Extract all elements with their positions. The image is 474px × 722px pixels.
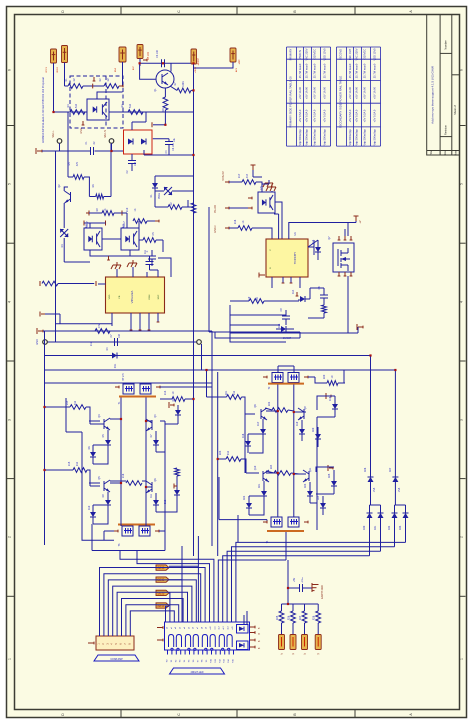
svg-text:Q11: Q11 bbox=[309, 467, 312, 472]
svg-text:GND: GND bbox=[36, 339, 39, 345]
svg-text:1N5: 1N5 bbox=[398, 487, 401, 492]
junction bbox=[192, 89, 194, 91]
svg-text:+5V 1A 00: +5V 1A 00 bbox=[305, 86, 309, 99]
junction bbox=[293, 411, 295, 413]
resistor R20 bbox=[327, 381, 338, 386]
junction bbox=[120, 418, 122, 420]
diode D5 bbox=[105, 440, 111, 445]
diode ladder DB bbox=[392, 476, 398, 478]
pin top mid bbox=[93, 77, 95, 81]
capacitor C7 bbox=[114, 338, 116, 346]
wire C8 link bbox=[310, 287, 324, 289]
svg-text:EARTH GND: EARTH GND bbox=[321, 585, 324, 599]
zone tick right bbox=[460, 242, 466, 244]
wire pullup v0 bbox=[281, 604, 283, 611]
transistor Q10 bbox=[262, 471, 264, 481]
svg-text:1M: 1M bbox=[107, 78, 110, 81]
wire x209 top bbox=[188, 206, 194, 208]
transistor Q8 bbox=[260, 409, 262, 419]
bus line L2 bbox=[47, 341, 197, 343]
junction bbox=[164, 124, 166, 126]
resistor R27 bbox=[191, 203, 196, 213]
wire bundle arrow feed 4 bbox=[166, 606, 170, 622]
wire pullup v2 bbox=[304, 604, 306, 611]
wire P1 down bbox=[53, 63, 55, 112]
svg-text:D22: D22 bbox=[243, 495, 246, 500]
svg-text:GND-F: GND-F bbox=[214, 225, 217, 233]
wire R28 bbox=[58, 283, 94, 285]
wire T3 pins up bbox=[120, 515, 122, 526]
zone tick left bbox=[7, 242, 15, 244]
svg-text:R16: R16 bbox=[122, 473, 125, 478]
display DS1 body bbox=[165, 622, 250, 650]
junction bbox=[293, 473, 295, 475]
wire cap to rail bbox=[287, 588, 289, 604]
wire R5 path bbox=[89, 196, 95, 198]
pin opto in a bbox=[88, 211, 90, 216]
wire D25 box bbox=[316, 467, 334, 472]
transistor Q4 bbox=[151, 420, 153, 430]
wire HB2 right rail bbox=[316, 417, 318, 530]
xdiode D3 bbox=[60, 229, 68, 237]
svg-text:D20: D20 bbox=[312, 427, 315, 432]
wire Q7 top link bbox=[344, 229, 346, 236]
resistor R8 bbox=[163, 97, 168, 110]
wire R17 wires bbox=[229, 181, 242, 183]
junction bbox=[110, 150, 112, 152]
wire D6 link bbox=[93, 444, 108, 446]
wire opto bottoms bbox=[90, 250, 152, 256]
zone tick bottom bbox=[354, 710, 356, 718]
wire D13 top bbox=[308, 240, 318, 247]
svg-text:PWR IN: PWR IN bbox=[298, 50, 302, 59]
svg-text:+310V: +310V bbox=[197, 58, 200, 66]
bus line L4 bbox=[45, 369, 396, 371]
svg-text:25.7W max0: 25.7W max0 bbox=[348, 63, 352, 78]
gnd sym a bbox=[116, 262, 118, 265]
svg-text:R22: R22 bbox=[268, 401, 271, 406]
diode ladder DE bbox=[392, 512, 398, 514]
title block cell line c bbox=[440, 136, 452, 138]
wire Q1 collector up bbox=[170, 63, 172, 71]
wire display bottom pins bbox=[167, 650, 169, 655]
junction bbox=[145, 420, 147, 422]
svg-text:+5V 0.5A 0: +5V 0.5A 0 bbox=[348, 109, 352, 122]
svg-text:Title: Title bbox=[429, 150, 433, 155]
wire D8 box bbox=[165, 421, 178, 424]
pin T3 left bbox=[114, 530, 118, 532]
svg-text:D19: D19 bbox=[296, 421, 299, 426]
pin GNDF bbox=[225, 227, 229, 229]
wire T4 stub bbox=[285, 532, 287, 560]
resistor R24 bbox=[274, 471, 291, 476]
junction bbox=[43, 406, 45, 408]
svg-text:D31: D31 bbox=[374, 525, 377, 530]
power port P1 bbox=[51, 49, 57, 63]
diode D8 bbox=[175, 410, 181, 415]
power port P3 bbox=[119, 47, 126, 62]
pin +out bbox=[358, 326, 363, 328]
wire pullup rail bbox=[282, 603, 319, 605]
BR1 diode b bbox=[141, 139, 146, 145]
wire main row y112 left bbox=[54, 111, 88, 113]
diode ladder DA bbox=[368, 476, 374, 478]
junction bbox=[162, 62, 164, 64]
svg-text:D15: D15 bbox=[278, 323, 281, 328]
pin U4 bl bbox=[41, 313, 45, 315]
svg-text:+5V 1A 00: +5V 1A 00 bbox=[373, 86, 377, 99]
display digit 1 bbox=[169, 635, 174, 648]
junction bbox=[369, 354, 371, 356]
wire HB1 inner box bbox=[93, 452, 108, 464]
wire D10 link bbox=[93, 504, 108, 506]
wire BR1 top pins bbox=[131, 122, 133, 130]
zone tick left bbox=[7, 478, 15, 480]
optocoupler U2 bbox=[84, 228, 102, 250]
connector port K0 bbox=[279, 635, 285, 650]
diode D4 bbox=[112, 353, 117, 359]
wire pull down 3 bbox=[317, 623, 319, 635]
capacitor C5 bbox=[148, 255, 156, 257]
svg-text:D23: D23 bbox=[304, 483, 307, 488]
wire D1 top bbox=[155, 175, 194, 177]
svg-text:DRN: DRN bbox=[149, 294, 151, 299]
svg-text:D16: D16 bbox=[329, 396, 332, 401]
wire C6 right bbox=[158, 258, 171, 277]
optocoupler U3 bbox=[121, 228, 139, 250]
diode D18 bbox=[245, 441, 251, 446]
wire C2 stub bbox=[131, 164, 133, 172]
svg-text:SECOND: SECOND bbox=[339, 49, 343, 60]
wire R18 wires bbox=[229, 227, 238, 229]
wire D12 down bbox=[165, 505, 177, 512]
wire D16 box bbox=[317, 396, 335, 410]
junction bbox=[277, 472, 279, 474]
pin VFB bbox=[225, 181, 229, 183]
wire T3 right out bbox=[159, 530, 165, 532]
designator DS1 bbox=[170, 668, 225, 674]
resistor R9 bbox=[102, 211, 114, 216]
capacitor C8 bbox=[320, 294, 328, 296]
diode D16 bbox=[332, 404, 338, 409]
svg-text:D14: D14 bbox=[292, 289, 295, 294]
svg-text:2K2: 2K2 bbox=[76, 461, 79, 466]
svg-text:25.7W max0: 25.7W max0 bbox=[355, 63, 359, 78]
wire R21 wires bbox=[206, 370, 208, 397]
transistor Q5 bbox=[103, 481, 105, 491]
diode D12 bbox=[174, 490, 180, 495]
svg-text:REF OUT: REF OUT bbox=[348, 48, 352, 60]
title block cell line d bbox=[427, 150, 460, 152]
pin D12 bbox=[174, 485, 177, 487]
net arrow N2 bbox=[156, 590, 169, 595]
svg-text:R19: R19 bbox=[248, 296, 251, 301]
zone tick right bbox=[460, 125, 466, 127]
title block cell line a bbox=[440, 52, 452, 54]
wire branch x68 bbox=[67, 112, 69, 177]
svg-text:VAC-N: VAC-N bbox=[104, 130, 107, 138]
svg-text:PRIMARY: PRIMARY bbox=[289, 48, 293, 60]
net arrow N3 bbox=[156, 603, 169, 608]
terminal VAC-N bbox=[109, 139, 114, 144]
wire U4 pin3 bbox=[146, 272, 148, 277]
svg-text:R14: R14 bbox=[66, 400, 69, 405]
svg-text:Vrip 500mVpp: Vrip 500mVpp bbox=[313, 129, 317, 146]
diode ladder DC bbox=[367, 512, 373, 514]
diode D10 bbox=[90, 512, 96, 517]
svg-text:25.7W max0: 25.7W max0 bbox=[313, 63, 317, 78]
transformer T4 box a bbox=[271, 517, 282, 527]
svg-text:R11: R11 bbox=[144, 249, 147, 254]
svg-text:+5V 0.5A 0: +5V 0.5A 0 bbox=[298, 109, 302, 122]
svg-text:25.7W max0: 25.7W max0 bbox=[373, 63, 377, 78]
svg-text:510: 510 bbox=[75, 103, 78, 108]
wire Q1 to R7 bbox=[170, 86, 177, 90]
wire row B bbox=[84, 222, 106, 224]
resistor R17 bbox=[242, 180, 256, 185]
chassis ground bbox=[311, 583, 313, 592]
zone tick top bbox=[236, 7, 238, 15]
wire Q5 top link bbox=[110, 482, 121, 484]
transformer T3 box b bbox=[139, 526, 150, 536]
resistor R10 bbox=[133, 219, 147, 224]
pin U6 left bbox=[259, 274, 265, 276]
wire R15 wires bbox=[45, 469, 74, 471]
pin opto gnd bbox=[108, 256, 110, 260]
wire y166 bbox=[56, 165, 58, 167]
resistor R5 bbox=[96, 194, 104, 199]
wire R26 link bbox=[154, 196, 156, 207]
svg-text:D26: D26 bbox=[364, 467, 367, 472]
wire pull down 2 bbox=[304, 623, 306, 635]
svg-text:+V: +V bbox=[359, 220, 362, 223]
resistor R7 bbox=[177, 88, 191, 93]
svg-text:C3 104: C3 104 bbox=[156, 49, 159, 57]
svg-text:4K7: 4K7 bbox=[246, 173, 249, 178]
svg-text:5: 5 bbox=[460, 183, 464, 185]
svg-text:SRC: SRC bbox=[158, 294, 160, 299]
svg-text:Size: Size bbox=[443, 150, 447, 156]
wire P4 down bbox=[139, 59, 141, 67]
wire row r1 bbox=[65, 85, 69, 87]
wire HB1 bottom2 bbox=[92, 550, 165, 552]
svg-text:+5V 1A 00: +5V 1A 00 bbox=[298, 86, 302, 99]
wire pull down 1 bbox=[292, 623, 294, 635]
wire HB1 right rail bbox=[164, 424, 166, 517]
wire T1 drops bbox=[120, 398, 122, 516]
wire R20 up link bbox=[338, 382, 344, 384]
svg-text:+AC: +AC bbox=[238, 59, 241, 64]
svg-text:D11: D11 bbox=[150, 493, 153, 498]
mosfet box Q7 bbox=[333, 243, 354, 272]
zone tick bottom bbox=[236, 710, 238, 718]
diode D13 bbox=[315, 247, 321, 252]
wire ladder split a bbox=[370, 504, 381, 506]
svg-text:R21: R21 bbox=[225, 390, 228, 395]
svg-text:3: 3 bbox=[8, 419, 12, 421]
power port P5 bbox=[191, 49, 197, 64]
wire D14 link bbox=[309, 288, 311, 299]
display driver a bbox=[237, 625, 249, 634]
resistor R28 bbox=[42, 281, 58, 286]
junction bbox=[43, 469, 45, 471]
svg-text:1: 1 bbox=[8, 658, 12, 660]
svg-text:4: 4 bbox=[460, 301, 464, 303]
capacitor C1 bbox=[90, 147, 92, 155]
ic U6 body bbox=[266, 239, 308, 277]
resistor pull R2 bbox=[302, 611, 307, 623]
wire +V down bbox=[355, 221, 357, 223]
wire R19 wires bbox=[230, 300, 249, 302]
title block cell line b bbox=[452, 74, 460, 76]
pin opto in b bbox=[83, 221, 85, 226]
wire vertical pass a bbox=[197, 536, 199, 622]
resistor R19 bbox=[249, 299, 264, 304]
diode D24 bbox=[320, 503, 326, 508]
wire D17-18 bbox=[248, 433, 263, 435]
wire Q2 collector bbox=[64, 187, 68, 191]
capacitor C2 bbox=[128, 160, 136, 162]
wire HB1 mid rail bbox=[65, 398, 67, 432]
resistor R21 bbox=[227, 395, 242, 400]
resistor R4 bbox=[128, 110, 143, 115]
svg-text:D33: D33 bbox=[399, 525, 402, 530]
svg-text:GND: GND bbox=[80, 128, 83, 134]
wire C3 row bbox=[140, 62, 162, 64]
wire rail x193 long bbox=[193, 64, 195, 556]
net arrow N1 bbox=[156, 577, 169, 582]
wire R8 up bbox=[164, 88, 166, 97]
pin display left bbox=[157, 627, 163, 629]
pin Q7 top bbox=[338, 236, 340, 240]
pin Q7 bottom bbox=[338, 272, 340, 276]
wire +5V stub bbox=[252, 170, 254, 177]
svg-text:R27: R27 bbox=[299, 615, 302, 620]
junction bbox=[52, 111, 54, 113]
wire P6 stub bbox=[194, 62, 234, 68]
wire mid row bbox=[110, 480, 126, 482]
svg-text:10u: 10u bbox=[173, 137, 176, 142]
resistor R1 bbox=[68, 84, 83, 89]
svg-text:510: 510 bbox=[129, 103, 132, 108]
resistor pull R3 bbox=[316, 611, 321, 623]
wire gnd circle drop bbox=[201, 344, 203, 370]
svg-text:Revision: Revision bbox=[443, 124, 447, 135]
svg-text:Vrip 500mVpp: Vrip 500mVpp bbox=[363, 129, 367, 146]
diode D17 bbox=[260, 429, 266, 434]
zone tick left bbox=[7, 125, 15, 127]
resistor R12 bbox=[95, 329, 110, 334]
wire U4 pin2 bbox=[132, 267, 134, 277]
svg-text:+5V 1A 00: +5V 1A 00 bbox=[348, 86, 352, 99]
svg-text:470u: 470u bbox=[302, 577, 304, 583]
junction bbox=[394, 369, 396, 371]
gnd sym b bbox=[132, 260, 134, 263]
zone tick left bbox=[7, 360, 15, 362]
svg-text:D12: D12 bbox=[164, 499, 167, 504]
diode D11 bbox=[153, 500, 159, 505]
vertical x209 bbox=[208, 207, 210, 332]
svg-text:Vrip 500mVpp: Vrip 500mVpp bbox=[323, 129, 327, 146]
zone tick left bbox=[7, 595, 15, 597]
power sym +V bbox=[355, 216, 357, 221]
svg-text:VIPer22A: VIPer22A bbox=[130, 291, 134, 304]
wire VAC-L stub bbox=[59, 143, 61, 151]
wire bundle left feed a bbox=[120, 551, 214, 623]
svg-text:25.7W max0: 25.7W max0 bbox=[323, 63, 327, 78]
resistor R3 bbox=[70, 110, 85, 115]
pin HB1 r bbox=[170, 404, 174, 406]
pin U4 left bbox=[98, 283, 106, 285]
wire R11 bbox=[139, 239, 143, 241]
wire PGOOD bbox=[229, 207, 248, 209]
svg-text:4DIGIT-LED: 4DIGIT-LED bbox=[190, 671, 203, 674]
svg-text:R26: R26 bbox=[288, 615, 291, 620]
svg-text:100K: 100K bbox=[182, 81, 185, 87]
pin D14 top bbox=[296, 292, 298, 296]
svg-text:5: 5 bbox=[8, 183, 12, 185]
junction bbox=[192, 398, 194, 400]
wire U6 right bbox=[308, 246, 314, 248]
wire BR1 bottom bbox=[131, 154, 133, 161]
svg-text:1M: 1M bbox=[73, 78, 76, 81]
transformer T2 box b bbox=[288, 373, 299, 383]
wire bundle bridge exits bbox=[236, 542, 406, 622]
transformer T2 bar bbox=[268, 383, 304, 385]
wire R1-R2 bbox=[83, 85, 104, 87]
gnd sym R17 bbox=[268, 180, 270, 183]
bus line L1 bbox=[43, 330, 212, 332]
svg-text:VAC 220V: VAC 220V bbox=[355, 48, 359, 60]
wire bundle arrow feed 2 bbox=[169, 579, 182, 581]
pin U6 b bbox=[282, 282, 285, 284]
svg-text:R17: R17 bbox=[238, 173, 241, 178]
wire pullup v1 bbox=[292, 604, 294, 611]
wire R8 down bbox=[164, 110, 166, 125]
svg-text:Q10: Q10 bbox=[254, 465, 257, 470]
svg-text:+5V 1A 00: +5V 1A 00 bbox=[323, 86, 327, 99]
dashed enable box bbox=[70, 76, 123, 128]
svg-text:2K2: 2K2 bbox=[74, 400, 77, 405]
pin T4 left bbox=[263, 521, 267, 523]
svg-text:25.7W max0: 25.7W max0 bbox=[305, 63, 309, 78]
svg-text:D32: D32 bbox=[388, 525, 391, 530]
pin PGOOD bbox=[225, 207, 229, 209]
transistor Q1 bbox=[156, 70, 174, 88]
pin HB2 r bbox=[327, 395, 331, 397]
pin U5 left bbox=[248, 197, 252, 199]
wire U6 bottom pins bbox=[271, 277, 273, 288]
svg-text:+310VDC: +310VDC bbox=[313, 49, 317, 60]
svg-text:6: 6 bbox=[460, 69, 464, 71]
wire opto top bbox=[97, 92, 123, 99]
resistor R23 bbox=[226, 457, 241, 462]
svg-text:2: 2 bbox=[8, 536, 12, 538]
svg-text:R23: R23 bbox=[219, 450, 222, 455]
terminal GND left bbox=[43, 340, 48, 345]
BR1 diode a bbox=[128, 139, 133, 145]
wire y151 left bbox=[42, 150, 91, 152]
svg-text:Vrip 500mVpp: Vrip 500mVpp bbox=[298, 129, 302, 146]
junction bbox=[192, 62, 194, 64]
wire vertical pass b bbox=[181, 546, 183, 622]
wire P3 down bbox=[122, 62, 124, 86]
transformer T2 box a bbox=[272, 373, 283, 383]
pin opto mid bbox=[121, 211, 123, 216]
svg-text:2K2: 2K2 bbox=[233, 390, 236, 395]
wire x218 long bbox=[217, 372, 219, 556]
svg-text:Vrip 500mVpp: Vrip 500mVpp bbox=[355, 129, 359, 146]
